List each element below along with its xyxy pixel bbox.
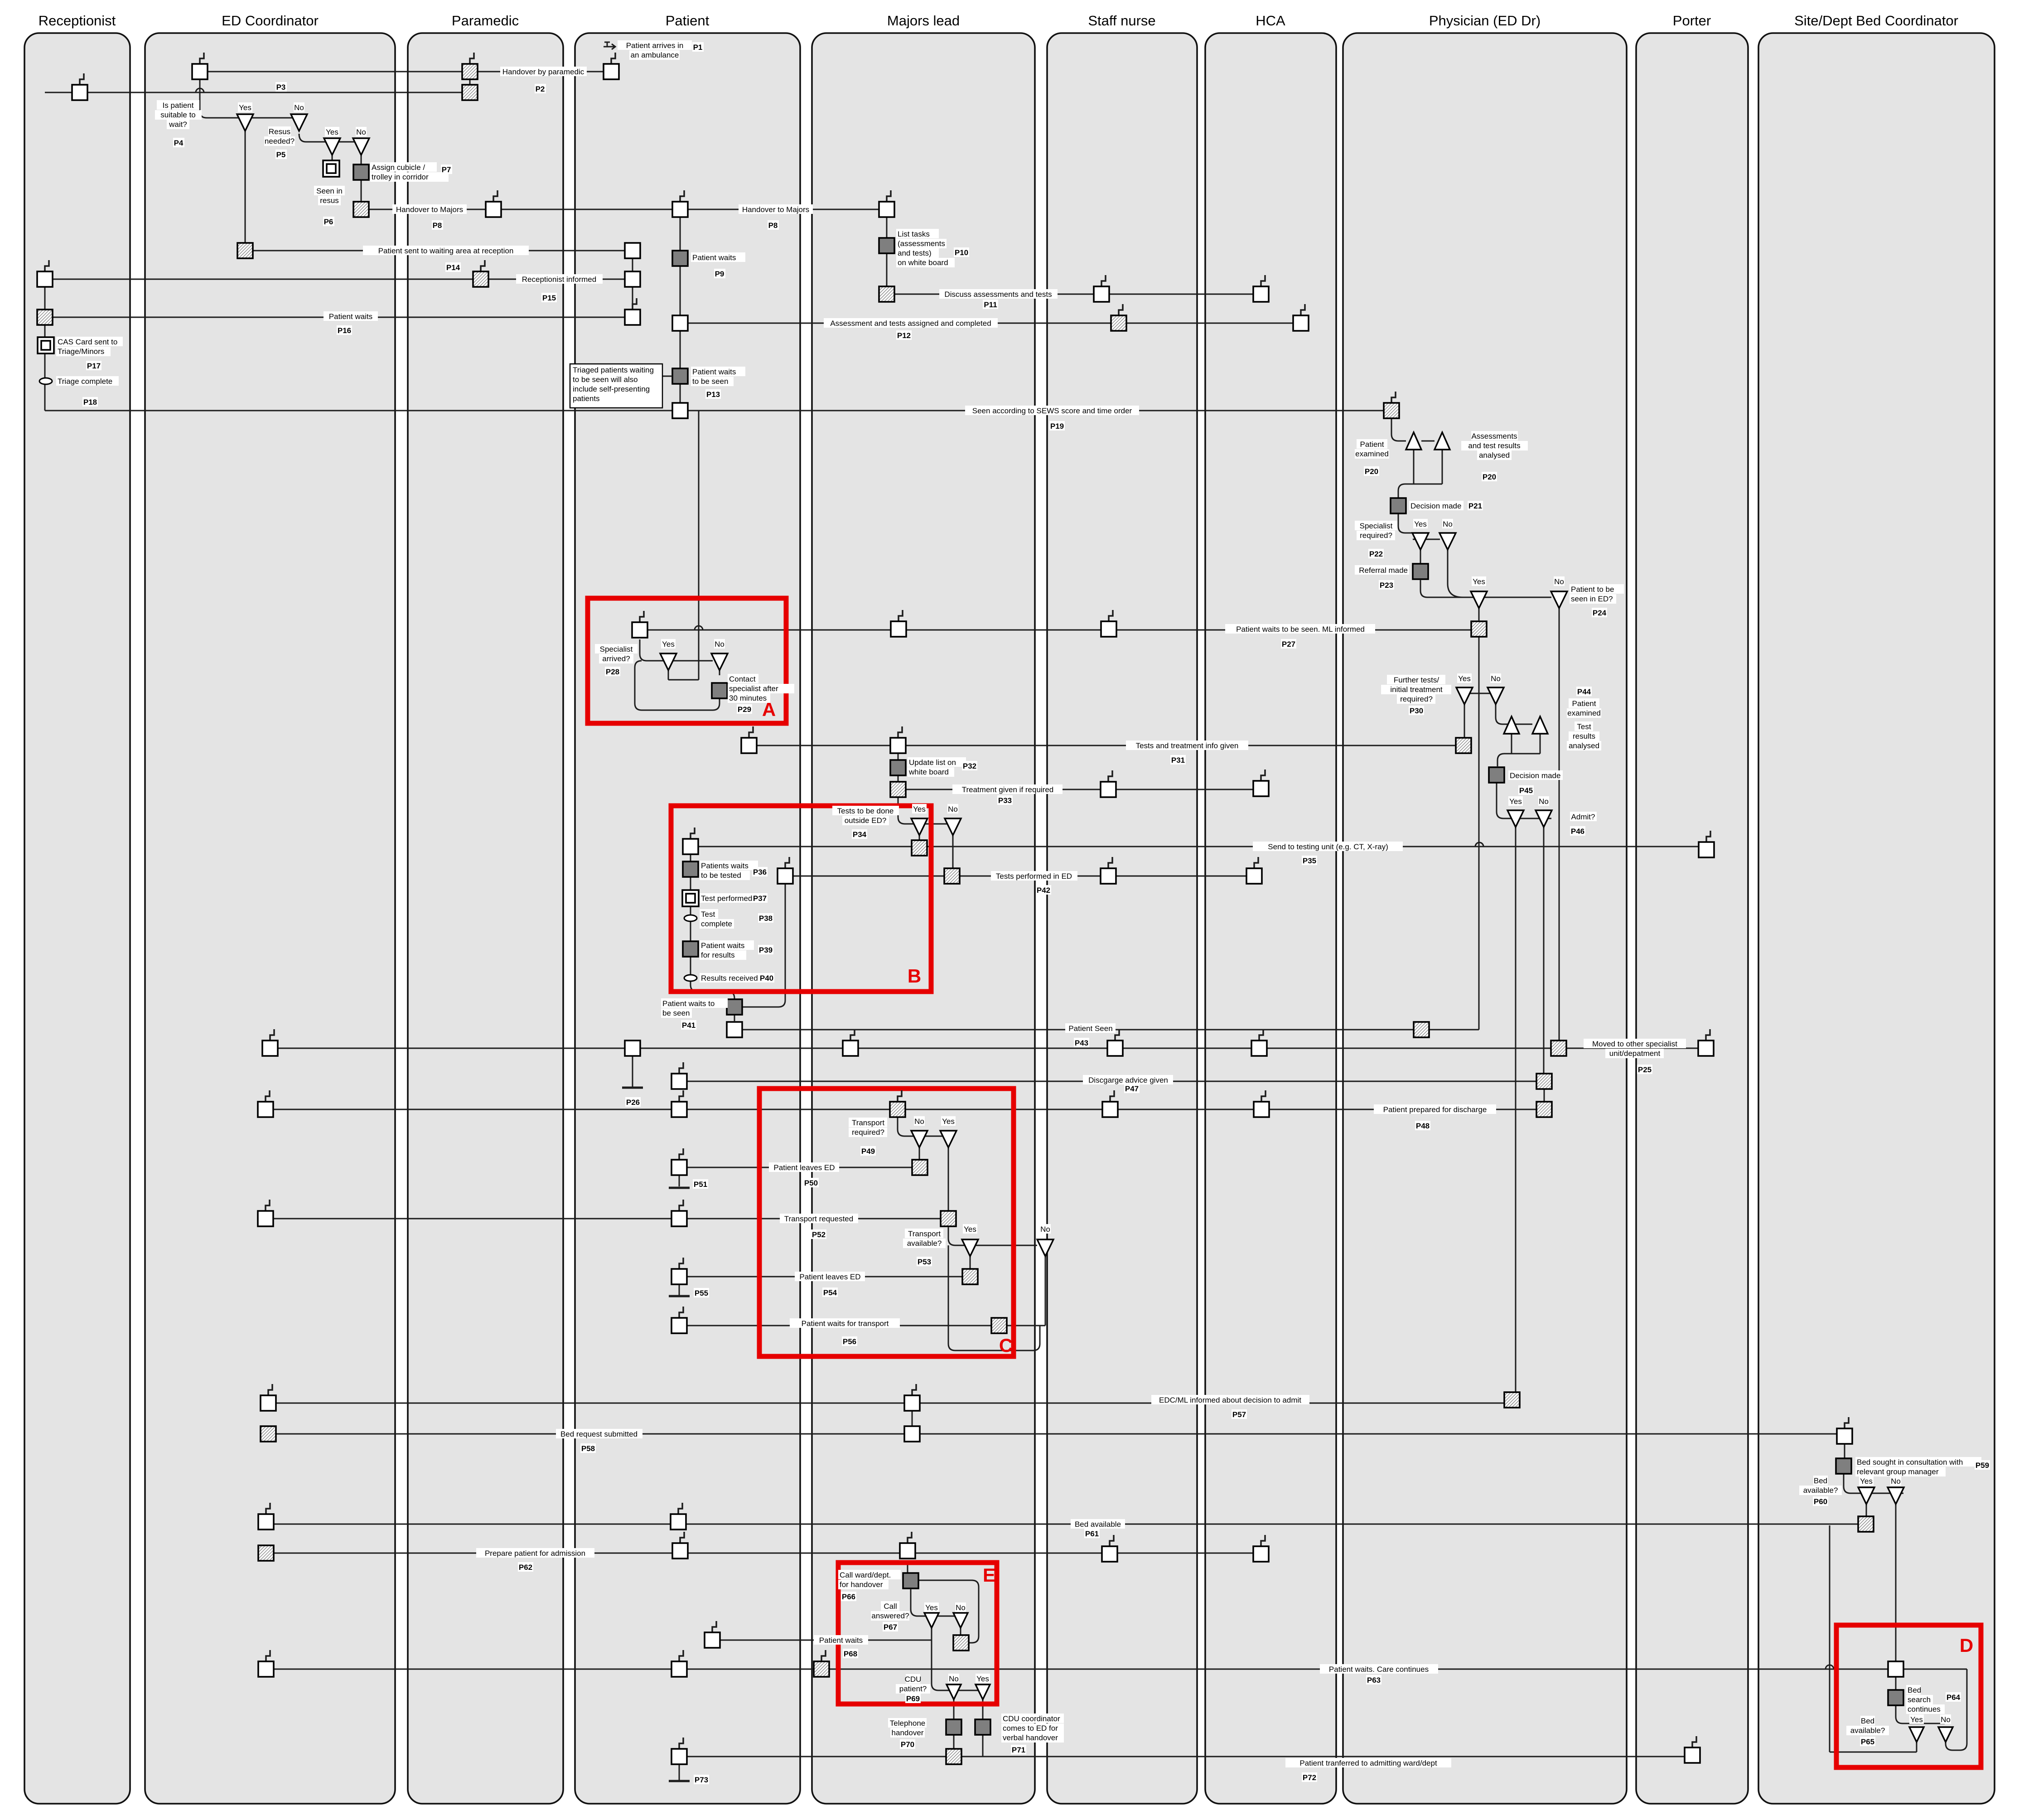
tri P60 yes xyxy=(1858,1487,1874,1504)
svg-text:Call ward/dept.: Call ward/dept. xyxy=(840,1571,891,1579)
svg-text:Yes: Yes xyxy=(1473,577,1485,586)
wire P52 line xyxy=(266,1218,948,1220)
svg-text:ED Coordinator: ED Coordinator xyxy=(222,13,319,29)
svg-text:analysed: analysed xyxy=(1479,451,1510,460)
wire physician stacked boxes xyxy=(1544,1089,1545,1102)
box P15 patient xyxy=(625,271,640,287)
region C red rect xyxy=(759,1089,1014,1356)
wire D chain xyxy=(1895,1669,1897,1690)
icon ambulance P1 xyxy=(604,42,615,49)
box P35 patient xyxy=(691,828,695,839)
svg-text:P58: P58 xyxy=(581,1444,595,1453)
tbar P51 xyxy=(669,1187,690,1189)
svg-text:Tests and treatment info given: Tests and treatment info given xyxy=(1136,741,1239,750)
svg-text:arrived?: arrived? xyxy=(602,654,630,663)
svg-text:P53: P53 xyxy=(918,1258,931,1266)
svg-text:P38: P38 xyxy=(759,914,773,923)
svg-text:B: B xyxy=(908,965,921,987)
box P71 cdu coordinator xyxy=(975,1719,990,1735)
box P41 waits to be seen xyxy=(727,999,742,1015)
tri P22 no xyxy=(1439,533,1456,550)
wire P60 row xyxy=(1844,1474,1903,1493)
svg-text:Patient waits. Care continues: Patient waits. Care continues xyxy=(1329,1665,1429,1674)
svg-text:P44: P44 xyxy=(1577,687,1591,696)
wire admit no vertical xyxy=(1543,827,1545,1073)
svg-text:Yes: Yes xyxy=(1509,797,1522,806)
box P48 hca xyxy=(1261,1090,1265,1102)
svg-text:Patient waits: Patient waits xyxy=(692,368,736,376)
box P31 patient xyxy=(749,726,753,738)
wire P72 line xyxy=(679,1756,1692,1757)
box P35 majors xyxy=(912,840,927,856)
svg-text:CAS Card sent to: CAS Card sent to xyxy=(58,338,117,346)
wire P5 row xyxy=(299,134,362,142)
svg-text:P14: P14 xyxy=(446,263,460,272)
svg-text:P70: P70 xyxy=(901,1740,914,1749)
svg-text:and test results: and test results xyxy=(1468,441,1520,450)
svg-text:Porter: Porter xyxy=(1673,13,1711,29)
svg-text:Yes: Yes xyxy=(976,1675,989,1683)
svg-text:P12: P12 xyxy=(897,331,911,340)
svg-text:P67: P67 xyxy=(884,1623,897,1631)
wire P4 yes/no row xyxy=(200,79,300,118)
svg-text:patient?: patient? xyxy=(899,1684,927,1693)
svg-text:A: A xyxy=(762,699,776,720)
wire CDU no down xyxy=(953,1697,955,1720)
wire P48 line xyxy=(266,1109,1544,1110)
tri P44 up1 xyxy=(1504,716,1519,734)
wire P24 no vertical xyxy=(1559,606,1560,1041)
svg-text:E: E xyxy=(983,1564,995,1586)
tri P69 no xyxy=(947,1684,961,1699)
svg-text:Yes: Yes xyxy=(326,128,338,136)
svg-text:comes to ED for: comes to ED for xyxy=(1003,1724,1058,1733)
wire bed-search loop left xyxy=(1829,1525,1831,1752)
ellipse P18 triage complete xyxy=(39,378,52,384)
tri P28 no xyxy=(711,653,728,670)
box handover majors xyxy=(887,190,891,202)
svg-text:search: search xyxy=(1908,1695,1931,1704)
svg-text:be seen: be seen xyxy=(662,1009,690,1017)
svg-text:relevant group manager: relevant group manager xyxy=(1857,1467,1939,1476)
svg-text:No: No xyxy=(956,1603,966,1612)
box P62 staff xyxy=(1110,1535,1114,1546)
svg-text:Handover to Majors: Handover to Majors xyxy=(742,205,809,214)
svg-text:Patient: Patient xyxy=(1572,699,1596,708)
svg-text:P59: P59 xyxy=(1976,1461,1989,1470)
wire P61 line xyxy=(266,1524,1866,1525)
wire P49 yes down xyxy=(948,1147,949,1211)
svg-text:wait?: wait? xyxy=(169,120,187,129)
wire P22 yes/no xyxy=(1398,513,1413,533)
box P29 contact specialist xyxy=(712,683,727,698)
box P52 majors xyxy=(941,1211,956,1226)
box P10 list tasks xyxy=(879,238,894,253)
svg-text:P13: P13 xyxy=(706,390,720,399)
box P48 patient xyxy=(679,1090,683,1102)
svg-text:P28: P28 xyxy=(606,668,619,676)
svg-text:Bed: Bed xyxy=(1861,1717,1874,1725)
box P50 patient xyxy=(679,1148,683,1160)
box P47 physician xyxy=(1536,1074,1552,1089)
wire P11 line xyxy=(887,294,1261,295)
svg-text:P29: P29 xyxy=(738,705,751,714)
svg-text:EDC/ML informed about decision: EDC/ML informed about decision to admit xyxy=(1159,1396,1301,1404)
svg-text:Patient leaves ED: Patient leaves ED xyxy=(773,1163,835,1172)
svg-text:P20: P20 xyxy=(1365,467,1378,476)
box P9 patient waits xyxy=(672,251,688,266)
wire physician P19 cluster xyxy=(1391,418,1406,441)
wire P51 terminator xyxy=(679,1167,680,1186)
svg-text:Assign cubicle /: Assign cubicle / xyxy=(372,163,425,172)
region E red rect xyxy=(838,1563,997,1704)
wire P53 yes down xyxy=(970,1256,971,1269)
svg-text:No: No xyxy=(1891,1477,1901,1486)
svg-text:Site/Dept Bed Coordinator: Site/Dept Bed Coordinator xyxy=(1794,13,1958,29)
wire P57 line xyxy=(268,1403,1512,1404)
svg-text:Yes: Yes xyxy=(1910,1715,1923,1724)
wire P49 yes/no xyxy=(898,1118,953,1136)
tri P65 no xyxy=(1938,1727,1953,1742)
svg-text:Tests to be done: Tests to be done xyxy=(837,807,894,815)
svg-text:P19: P19 xyxy=(1050,422,1064,431)
wire long vertical to P43 xyxy=(1478,637,1480,1030)
wire P7 to handover box xyxy=(361,179,362,203)
svg-text:P36: P36 xyxy=(753,868,767,876)
box P58 majors xyxy=(904,1426,920,1442)
svg-text:Test: Test xyxy=(1577,722,1591,731)
wire region E chain xyxy=(907,1561,908,1573)
wire P43 line xyxy=(734,1029,1428,1031)
wire P30 yes down xyxy=(1464,704,1465,739)
box P52 ed xyxy=(266,1200,270,1211)
wire P58 line xyxy=(268,1433,1845,1435)
box P63 patient xyxy=(679,1650,683,1661)
svg-text:on white board: on white board xyxy=(898,258,948,267)
tri P20 up2 xyxy=(1435,432,1450,450)
wire note connector xyxy=(662,376,672,377)
box P25 hca xyxy=(1259,1029,1263,1041)
svg-text:Patient waits for transport: Patient waits for transport xyxy=(802,1319,889,1328)
svg-text:Patient tranferred to admittin: Patient tranferred to admitting ward/dep… xyxy=(1299,1759,1437,1767)
svg-text:Assessments: Assessments xyxy=(1471,432,1517,440)
svg-text:required?: required? xyxy=(1400,695,1433,703)
box P48 physician xyxy=(1536,1102,1552,1117)
box P32 update list xyxy=(890,760,906,775)
svg-text:Transport requested: Transport requested xyxy=(784,1215,853,1223)
wire P3 handover line xyxy=(200,71,611,73)
wire paramedic chain xyxy=(469,72,471,92)
svg-text:P26: P26 xyxy=(626,1098,640,1107)
box P57 ed xyxy=(268,1384,272,1395)
svg-text:No: No xyxy=(1443,520,1453,528)
svg-text:P46: P46 xyxy=(1571,827,1584,836)
svg-text:Yes: Yes xyxy=(913,805,926,813)
svg-text:P15: P15 xyxy=(542,294,556,302)
svg-text:P55: P55 xyxy=(695,1289,708,1297)
box P47 patient xyxy=(679,1062,683,1074)
box P67 no wait xyxy=(953,1635,969,1651)
svg-text:No: No xyxy=(1554,577,1564,586)
box P23 referral made xyxy=(1413,564,1428,579)
note triaged patients xyxy=(570,364,662,408)
svg-text:Call: Call xyxy=(884,1602,897,1611)
box P42 majors xyxy=(944,868,960,884)
svg-text:Bed request submitted: Bed request submitted xyxy=(560,1430,638,1438)
box P59 bed sought xyxy=(1836,1458,1851,1474)
svg-text:P8: P8 xyxy=(768,221,778,230)
wire P33 line xyxy=(898,789,1261,790)
wire P53 row xyxy=(948,1227,1037,1245)
box P11 hca xyxy=(1261,275,1265,286)
svg-text:P66: P66 xyxy=(842,1592,855,1601)
svg-text:P45: P45 xyxy=(1519,786,1533,795)
box P72 majors xyxy=(946,1749,961,1764)
svg-text:suitable to: suitable to xyxy=(160,111,196,119)
wire P14 line xyxy=(245,250,633,252)
svg-text:Physician (ED Dr): Physician (ED Dr) xyxy=(1429,13,1541,29)
tri P46 yes xyxy=(1507,810,1524,827)
svg-text:answered?: answered? xyxy=(871,1612,909,1620)
svg-text:needed?: needed? xyxy=(265,137,295,145)
box P48 majors xyxy=(898,1090,902,1102)
svg-text:Triage complete: Triage complete xyxy=(58,377,112,386)
box P12 patient xyxy=(672,315,688,331)
wire CDU yes down xyxy=(982,1697,984,1720)
svg-text:No: No xyxy=(715,640,725,649)
svg-text:Contact: Contact xyxy=(729,675,756,683)
svg-text:Discuss assessments and tests: Discuss assessments and tests xyxy=(944,290,1052,299)
svg-text:Decision made: Decision made xyxy=(1510,771,1560,780)
wire P15 line xyxy=(45,279,633,280)
svg-text:Discgarge advice given: Discgarge advice given xyxy=(1088,1076,1168,1084)
svg-text:P31: P31 xyxy=(1171,756,1185,765)
box handover paramedic relay xyxy=(493,190,498,202)
svg-text:available?: available? xyxy=(1850,1726,1885,1735)
wire P63 line xyxy=(266,1669,1967,1670)
svg-text:Patient to be: Patient to be xyxy=(1571,585,1614,594)
box P35 porter xyxy=(1706,831,1710,842)
svg-text:(assessments: (assessments xyxy=(898,239,945,248)
box P54 majors xyxy=(962,1269,978,1284)
svg-text:Receptionist: Receptionist xyxy=(39,13,116,29)
svg-text:Prepare patient for admission: Prepare patient for admission xyxy=(485,1549,585,1558)
box P1 patient arrives xyxy=(611,53,615,64)
box P63 majors xyxy=(821,1650,826,1661)
box P63 site xyxy=(1888,1661,1903,1677)
box P25 staff xyxy=(1115,1029,1119,1041)
wire P60 yes down xyxy=(1866,1504,1867,1517)
svg-text:to be tested: to be tested xyxy=(701,871,741,880)
svg-text:P32: P32 xyxy=(963,762,976,770)
box P58 ed xyxy=(261,1426,276,1442)
svg-text:D: D xyxy=(1960,1635,1973,1656)
region A red rect xyxy=(588,598,786,723)
tri P30 no xyxy=(1488,687,1504,704)
box P11 majors xyxy=(879,286,894,302)
svg-text:Yes: Yes xyxy=(239,103,251,112)
svg-text:Treatment given if required: Treatment given if required xyxy=(962,785,1054,794)
svg-text:P27: P27 xyxy=(1282,640,1295,649)
svg-text:P23: P23 xyxy=(1380,581,1393,590)
svg-text:P24: P24 xyxy=(1593,609,1607,617)
tri P5 no xyxy=(353,138,369,155)
svg-text:P5: P5 xyxy=(276,150,286,159)
svg-text:Transport: Transport xyxy=(852,1118,884,1127)
svg-text:Decision made: Decision made xyxy=(1410,502,1461,510)
svg-text:P52: P52 xyxy=(812,1230,826,1239)
svg-text:P41: P41 xyxy=(682,1021,696,1030)
svg-text:No: No xyxy=(1539,797,1549,806)
box P3 start xyxy=(200,53,204,64)
svg-text:P4: P4 xyxy=(174,139,184,147)
svg-text:Moved to other specialist: Moved to other specialist xyxy=(1592,1040,1677,1048)
svg-text:P47: P47 xyxy=(1125,1084,1139,1093)
svg-text:Triage/Minors: Triage/Minors xyxy=(58,347,104,356)
box P43 patient xyxy=(727,1022,742,1037)
svg-text:available?: available? xyxy=(907,1239,942,1248)
tri P4 yes xyxy=(237,114,253,131)
svg-text:P62: P62 xyxy=(519,1563,532,1572)
svg-text:P61: P61 xyxy=(1085,1530,1099,1538)
dbox seen in resus xyxy=(323,160,339,177)
svg-text:examined: examined xyxy=(1355,450,1389,458)
wire P46 admit row xyxy=(1497,783,1551,818)
svg-text:P16: P16 xyxy=(338,326,351,335)
box handover origin xyxy=(353,202,369,217)
wire yes1 down to P14 xyxy=(245,131,246,244)
box P12 staff xyxy=(1119,304,1123,315)
svg-text:P48: P48 xyxy=(1416,1122,1430,1130)
svg-text:No: No xyxy=(914,1117,924,1126)
svg-text:No: No xyxy=(1491,674,1501,683)
box P57 physician xyxy=(1504,1392,1520,1408)
box P61 site xyxy=(1858,1516,1874,1532)
wire P54 line xyxy=(679,1276,970,1278)
box P36 patient waits tested xyxy=(683,862,698,877)
box P62 hca xyxy=(1261,1535,1265,1546)
wire P73 terminator xyxy=(679,1764,680,1780)
box P54 patient xyxy=(679,1258,683,1269)
svg-text:an ambulance: an ambulance xyxy=(631,51,679,59)
box P56 majors xyxy=(991,1318,1007,1333)
wire P30 row xyxy=(1464,693,1496,694)
box SEWS patient xyxy=(672,403,688,418)
svg-text:Resus: Resus xyxy=(269,127,290,136)
box P31 majors xyxy=(898,726,902,738)
svg-text:No: No xyxy=(1941,1715,1951,1724)
svg-text:No: No xyxy=(356,128,366,136)
box P50 majors xyxy=(912,1160,927,1175)
svg-text:P2: P2 xyxy=(536,85,545,93)
wire patient chain B xyxy=(690,847,691,981)
tri P67 no xyxy=(953,1613,968,1628)
box P33 majors xyxy=(890,782,906,797)
wire SEWS line xyxy=(45,410,1391,411)
svg-text:seen in ED?: seen in ED? xyxy=(1571,595,1613,603)
tri P24 no xyxy=(1551,591,1567,608)
box P27 staff xyxy=(1109,610,1113,621)
tri P24 yes xyxy=(1471,591,1487,608)
svg-text:Seen in: Seen in xyxy=(316,187,343,195)
svg-text:Is patient: Is patient xyxy=(163,101,194,110)
svg-text:Patient waits: Patient waits xyxy=(692,253,736,262)
wire P42 line xyxy=(785,876,1254,877)
svg-text:handover: handover xyxy=(892,1728,924,1737)
svg-text:Update list on: Update list on xyxy=(909,758,956,767)
svg-text:P35: P35 xyxy=(1303,857,1316,865)
box P11 staff xyxy=(1101,275,1106,286)
svg-text:P51: P51 xyxy=(694,1180,707,1189)
svg-text:Patient waits: Patient waits xyxy=(329,312,372,321)
box P63 ed xyxy=(266,1650,270,1661)
svg-text:Patients waits: Patients waits xyxy=(701,862,749,870)
wire P12 line xyxy=(680,323,1301,324)
box P62 majors xyxy=(908,1532,912,1543)
box P45 decision made xyxy=(1489,767,1504,783)
wire P24 yes down xyxy=(1478,606,1480,620)
svg-text:P54: P54 xyxy=(823,1288,837,1297)
tbar P26 xyxy=(622,1087,643,1089)
svg-text:P39: P39 xyxy=(759,946,773,954)
tri P60 no xyxy=(1888,1487,1904,1504)
svg-text:P50: P50 xyxy=(804,1179,818,1187)
svg-text:examined: examined xyxy=(1567,709,1601,717)
svg-text:Patient: Patient xyxy=(1360,440,1384,449)
box P25 ed xyxy=(270,1029,274,1041)
box P61 ed xyxy=(266,1503,270,1514)
box P14 origin xyxy=(237,243,253,258)
svg-text:P69: P69 xyxy=(906,1694,920,1703)
wire P55 terminator xyxy=(679,1277,680,1295)
box P25 majors xyxy=(850,1029,855,1041)
svg-text:P11: P11 xyxy=(984,300,997,309)
box P70 telephone xyxy=(946,1719,961,1735)
tri P53 yes xyxy=(962,1239,978,1256)
svg-text:P63: P63 xyxy=(1367,1676,1381,1684)
svg-text:Patient waits: Patient waits xyxy=(819,1636,863,1645)
svg-text:Patient Seen: Patient Seen xyxy=(1068,1024,1112,1033)
svg-text:Bed: Bed xyxy=(1908,1686,1921,1694)
tbar P73 xyxy=(669,1780,690,1782)
box receptionist registered xyxy=(80,73,84,85)
svg-text:P17: P17 xyxy=(87,362,101,370)
svg-text:P60: P60 xyxy=(1814,1497,1827,1506)
box P52 patient xyxy=(679,1200,683,1211)
svg-text:Patient leaves ED: Patient leaves ED xyxy=(799,1273,860,1281)
svg-text:outside ED?: outside ED? xyxy=(845,816,887,825)
svg-text:Bed available: Bed available xyxy=(1075,1520,1121,1529)
box paramedic P2 upper xyxy=(470,53,474,64)
tbar P55 xyxy=(669,1295,690,1297)
svg-text:P71: P71 xyxy=(1012,1746,1025,1754)
tri P53 no xyxy=(1037,1239,1053,1256)
svg-text:P22: P22 xyxy=(1369,550,1383,558)
wire site chain xyxy=(1844,1434,1845,1458)
svg-text:P10: P10 xyxy=(955,248,968,257)
wire patient chain left xyxy=(632,251,633,317)
svg-text:P42: P42 xyxy=(1037,886,1050,895)
wire C loop xyxy=(948,1245,1040,1350)
svg-text:P21: P21 xyxy=(1468,502,1482,510)
svg-text:P20: P20 xyxy=(1483,473,1496,481)
svg-text:P9: P9 xyxy=(715,270,725,278)
box P56 patient xyxy=(679,1307,683,1318)
svg-text:Handover by paramedic: Handover by paramedic xyxy=(502,68,584,76)
wire P34 yes/no xyxy=(898,798,953,824)
svg-text:Yes: Yes xyxy=(925,1603,938,1612)
svg-text:Tests performed in ED: Tests performed in ED xyxy=(996,872,1072,881)
